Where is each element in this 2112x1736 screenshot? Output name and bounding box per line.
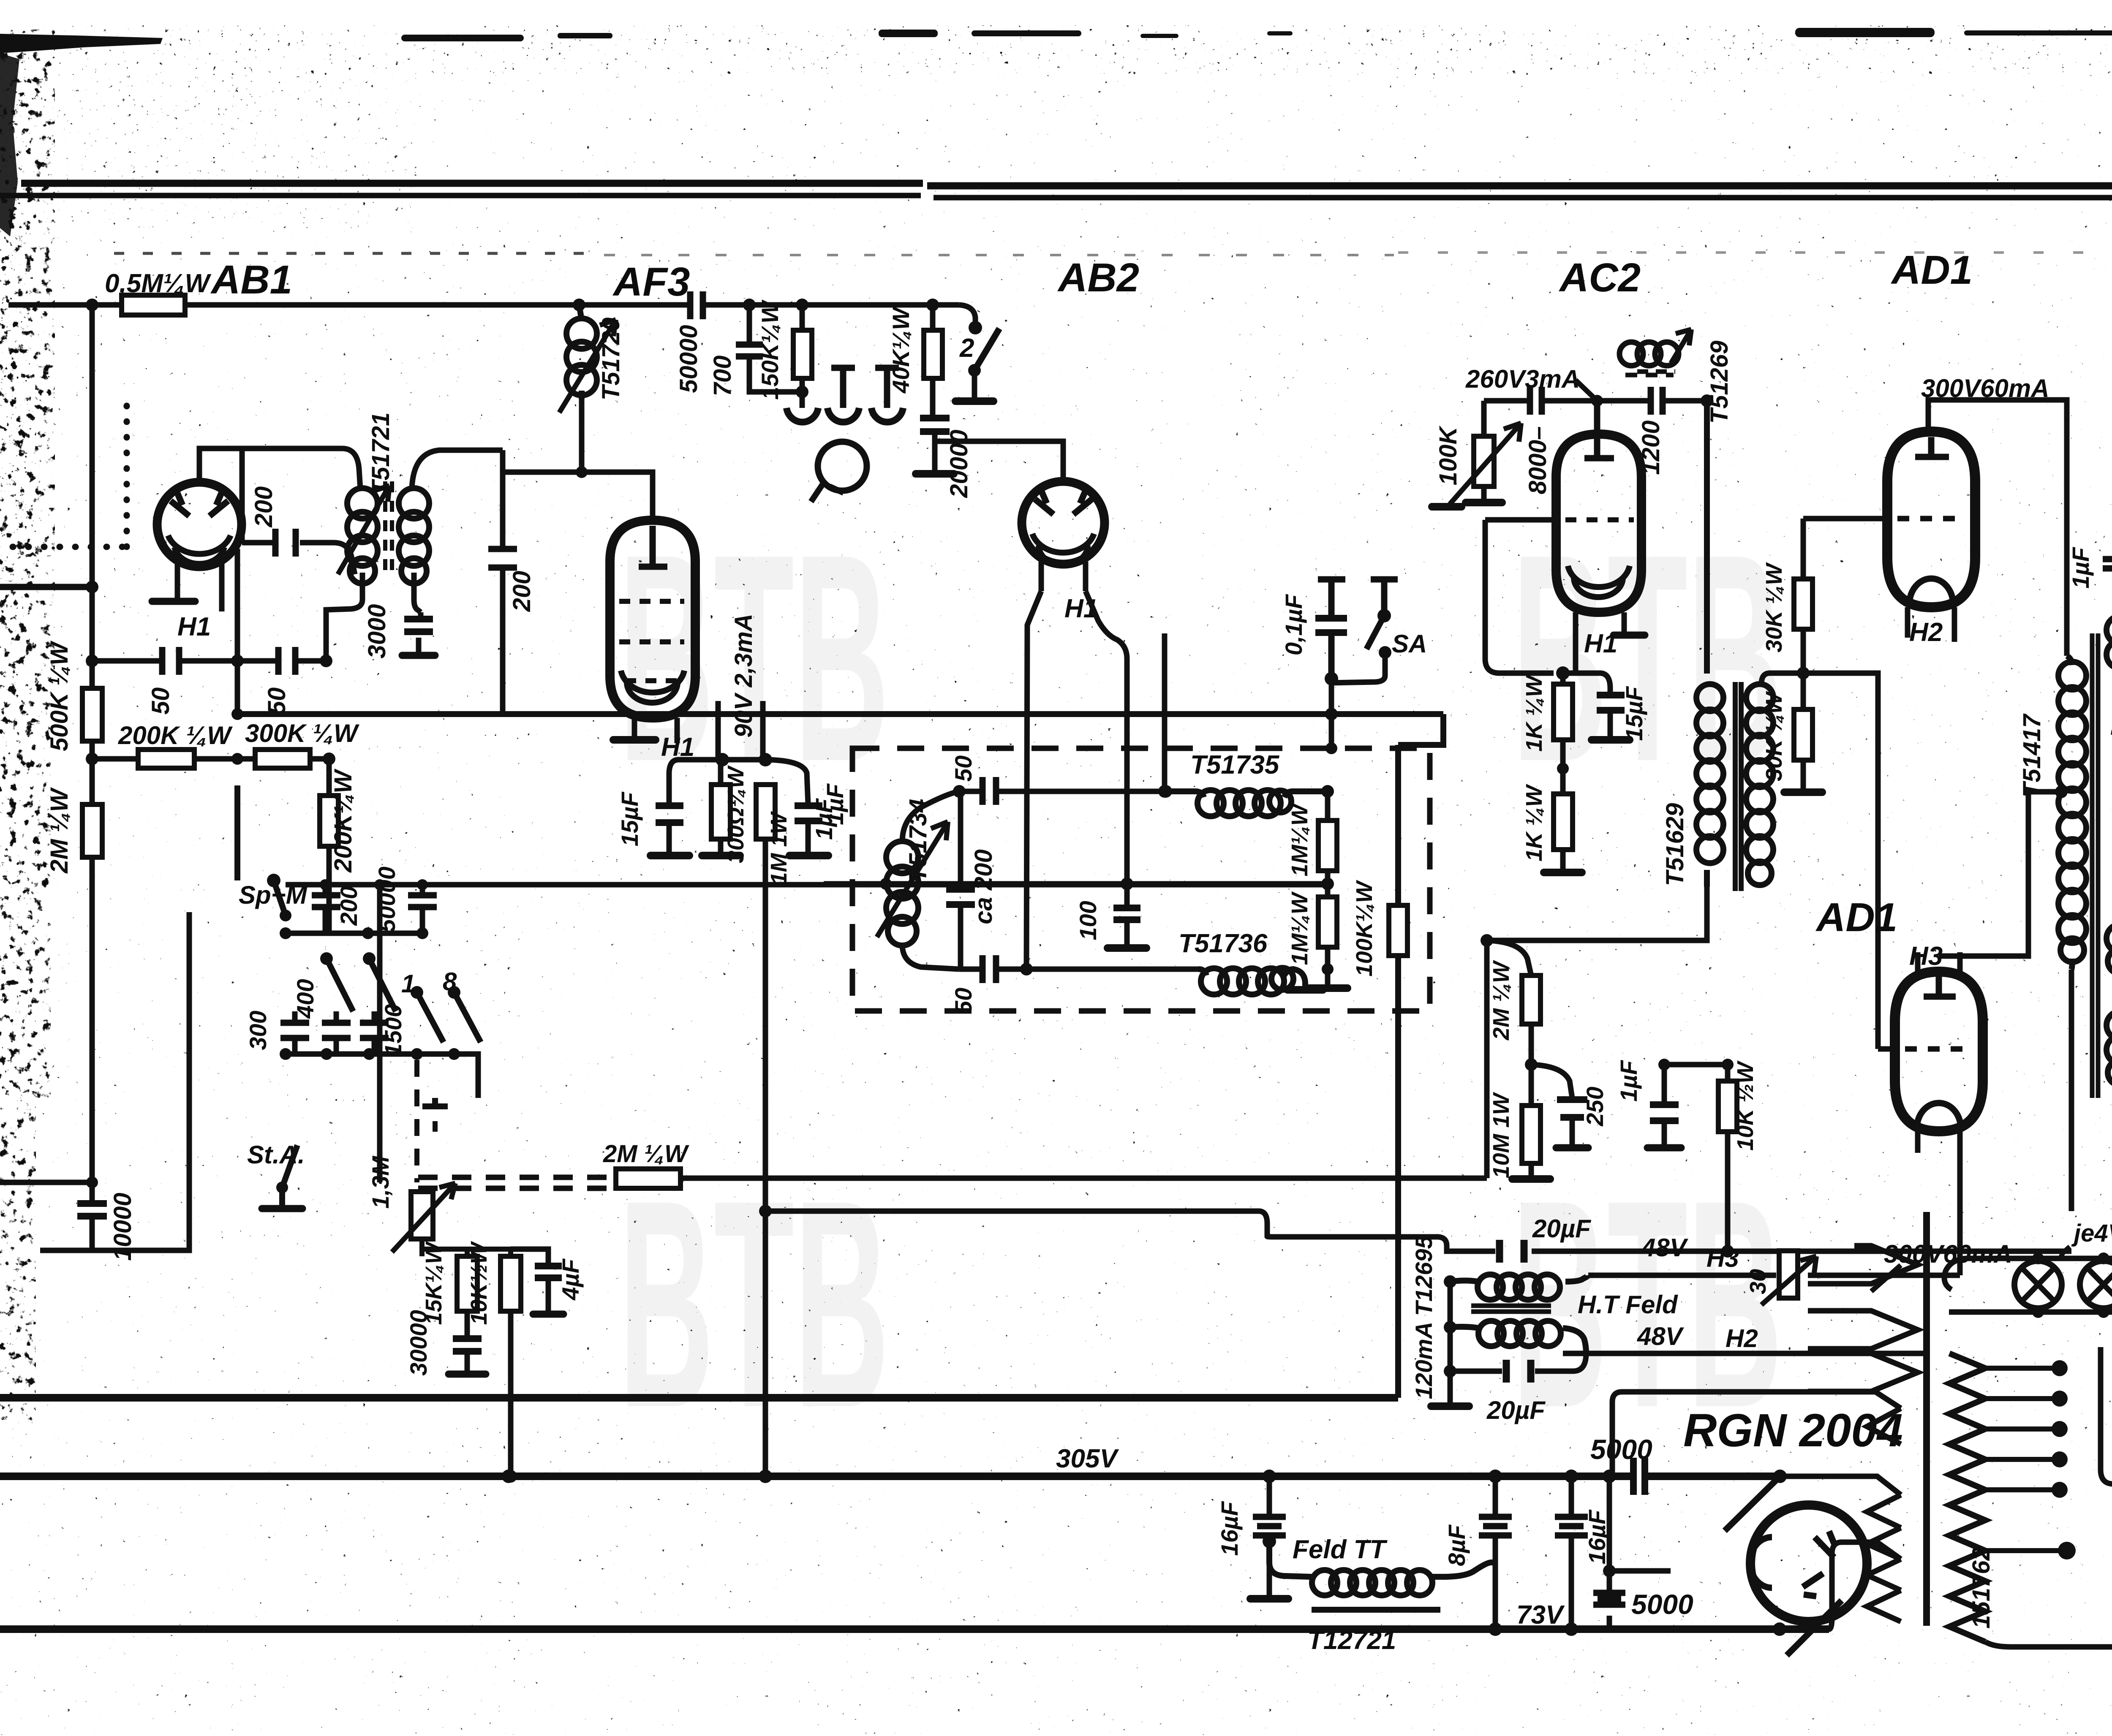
coupling cap 200 (AB1 anode) xyxy=(242,448,355,574)
bias node wire xyxy=(1664,1062,1728,1068)
RGN anode diagonal top xyxy=(1725,1476,1780,1531)
resistor 2M 1/4W (grid leak AD1) xyxy=(1487,940,1531,1065)
ground bar pot xyxy=(1466,499,1502,506)
svg-text:4µF: 4µF xyxy=(557,1258,584,1300)
rail L3 xyxy=(0,1625,1829,1633)
resistor 1M 1/4W lower xyxy=(1325,884,1331,969)
wire B (300V feed lower) xyxy=(765,1211,2071,1251)
svg-text:30K ¼W: 30K ¼W xyxy=(1761,691,1787,781)
antenna input wire xyxy=(0,584,92,590)
svg-text:AF3: AF3 xyxy=(612,259,690,304)
svg-text:1K ¼W: 1K ¼W xyxy=(1521,784,1547,861)
rail L1 xyxy=(0,1394,1398,1402)
Sp+M switch lever xyxy=(237,785,286,916)
svg-text:3000: 3000 xyxy=(363,604,391,658)
ground bar 300 xyxy=(702,852,740,859)
Feld TT choke xyxy=(1269,1541,1495,1577)
left vertical continues to 10000 cap xyxy=(90,840,95,1202)
extra noise top band xyxy=(63,25,2112,76)
bus of band switches xyxy=(286,931,422,936)
svg-text:H2: H2 xyxy=(1726,1324,1758,1353)
resistor 0,5M (series in antenna lead) xyxy=(122,295,185,315)
T51629 primary bottom to 2M node xyxy=(1487,887,1707,940)
tube AB1 cathode arcs xyxy=(168,535,231,554)
osc coil T51734 xyxy=(886,841,918,873)
primary taps xyxy=(1985,1368,2061,1551)
svg-text:5000: 5000 xyxy=(1631,1589,1693,1620)
resistor 200K 1/4W xyxy=(138,750,194,768)
T51720 bottom lead xyxy=(579,399,585,472)
svg-text:120mA T12695: 120mA T12695 xyxy=(1410,1236,1437,1399)
dashed oscillator box xyxy=(852,748,1430,1011)
resistor 10M 1W xyxy=(1529,1065,1534,1177)
AD1 H2 cathode dome xyxy=(1909,579,1953,605)
transformer core xyxy=(1923,1212,1930,1626)
ground bar 30K lower xyxy=(1784,788,1822,796)
pot 100K arrow xyxy=(1450,423,1521,504)
svg-text:16µF: 16µF xyxy=(1584,1509,1610,1565)
AD1 H3 pins xyxy=(1918,1131,1960,1275)
svg-text:T51417: T51417 xyxy=(2018,713,2046,797)
switch bank right vertical xyxy=(377,885,383,1182)
resistor 10K 1/2W xyxy=(1725,1065,1731,1251)
svg-text:151762: 151762 xyxy=(1968,1547,1995,1629)
svg-text:260V3mA: 260V3mA xyxy=(1465,365,1580,393)
svg-text:H3: H3 xyxy=(1706,1244,1739,1272)
svg-text:73V: 73V xyxy=(1516,1600,1565,1630)
svg-text:H1: H1 xyxy=(1584,629,1617,658)
resistor 100K 1/4W (AVC divider) xyxy=(1395,745,1401,1398)
grid wire to AF3 xyxy=(503,472,653,519)
T51721 secondary top lead xyxy=(412,450,503,489)
lamp bus upper xyxy=(1968,1256,2112,1261)
svg-text:ca 200: ca 200 xyxy=(970,849,997,924)
junction dot at 40K xyxy=(926,299,939,311)
RGN inner circle xyxy=(1750,1537,1772,1588)
ground bar field xyxy=(1431,1402,1469,1410)
switch 1 lever xyxy=(417,992,444,1042)
cap 16uF left xyxy=(1267,1476,1272,1541)
RGN cathode diagonal bottom xyxy=(1787,1600,1842,1655)
anode loop xyxy=(1612,1392,1901,1473)
switch 8 lever xyxy=(454,992,481,1042)
coil T51735 xyxy=(1166,791,1328,797)
svg-text:2M ¼W: 2M ¼W xyxy=(603,1140,689,1168)
resistor 1M 1/4W upper xyxy=(1325,791,1331,884)
pot wiper to network xyxy=(422,1239,467,1256)
ground bar under AB1 pin xyxy=(152,598,195,605)
svg-text:500K ¼W: 500K ¼W xyxy=(46,641,73,751)
svg-text:30: 30 xyxy=(1745,1269,1771,1294)
resistor 2M 1/4W (series AVC) xyxy=(616,1169,680,1188)
grid cap 200 (right) xyxy=(500,450,506,712)
svg-text:300Ω¼W: 300Ω¼W xyxy=(723,765,748,863)
svg-text:AD1: AD1 xyxy=(1815,895,1897,940)
cap 50 (right) xyxy=(278,647,295,675)
bottom wire to winding xyxy=(1773,1622,1786,1636)
coupling cap left xyxy=(1530,387,1542,415)
cap 1uF (AD1 bias) xyxy=(1662,1065,1667,1146)
ground bar 1K lower xyxy=(1544,869,1582,876)
svg-text:AD1: AD1 xyxy=(1891,247,1973,293)
top-left corner smudge xyxy=(0,34,163,53)
cap 250 (grid) xyxy=(1531,1065,1572,1146)
svg-text:T51735: T51735 xyxy=(1190,750,1280,780)
switch box bottom xyxy=(40,912,189,1250)
svg-text:200K¼W: 200K¼W xyxy=(329,769,357,873)
T51417 primary coil xyxy=(2067,656,2072,970)
svg-text:AB1: AB1 xyxy=(210,257,292,302)
H.T Feld coil lower xyxy=(1450,1327,1586,1353)
AVC cap wire row xyxy=(92,658,326,664)
svg-text:100K: 100K xyxy=(1434,425,1462,486)
svg-text:90V 2,3mA: 90V 2,3mA xyxy=(730,614,757,737)
cap 50 top xyxy=(983,777,996,805)
field coil H.T Feld choke vertical xyxy=(1448,1282,1453,1404)
series cap 50000 on rail xyxy=(690,291,703,319)
ground bar 3000 xyxy=(402,652,435,659)
svg-text:1K ¼W: 1K ¼W xyxy=(1521,674,1547,752)
wire pot to 10K xyxy=(435,1249,511,1256)
top smudge dashes xyxy=(401,35,524,41)
output transformer T51417 core xyxy=(2092,633,2098,1098)
cathode bar xyxy=(1614,632,1645,639)
dotted AVC line horizontal xyxy=(13,544,127,550)
wire to T51721 top xyxy=(242,448,360,489)
RGN grid left wire xyxy=(1609,1568,1671,1574)
dashed AVC double line xyxy=(418,1177,616,1188)
svg-text:40K¼W: 40K¼W xyxy=(887,306,914,394)
ground bar St.A xyxy=(262,1205,302,1212)
potentiometer 1,3M xyxy=(411,1192,433,1239)
svg-text:150K¼W: 150K¼W xyxy=(757,299,783,400)
tube AD1 H2 envelope xyxy=(1887,432,1975,607)
ground bar switch 2 xyxy=(955,397,993,405)
AC2 top cap xyxy=(1584,401,1614,458)
wire cap to winding xyxy=(1645,1476,1901,1495)
resistor 40K 1/4W xyxy=(930,305,936,416)
top box wire with cap 50 xyxy=(959,789,1166,794)
electrolytic 15uF (AC2) xyxy=(1563,673,1610,737)
cap 8uF xyxy=(1493,1476,1498,1629)
svg-text:305V: 305V xyxy=(1056,1444,1119,1473)
svg-text:H1: H1 xyxy=(177,612,211,641)
svg-text:50000: 50000 xyxy=(675,325,702,393)
svg-text:200K ¼W: 200K ¼W xyxy=(118,721,233,750)
heater winding chevron 2 xyxy=(1808,1311,1918,1349)
T51734 arrow xyxy=(877,822,948,937)
heater winding chevron H2 xyxy=(1808,1353,1926,1391)
resistor 10K 1/2W xyxy=(501,1256,521,1311)
coupling cap right xyxy=(1651,387,1663,415)
St.A switch lever xyxy=(282,1145,297,1207)
cap 15uF xyxy=(669,760,722,853)
left vertical to bottom xyxy=(1607,1476,1612,1629)
grid tick arrow xyxy=(1576,380,1597,401)
RGN2004 bulb xyxy=(1750,1505,1867,1622)
lamp 2 xyxy=(2080,1261,2112,1308)
extra noise cloud mid-left xyxy=(46,228,207,650)
svg-text:250: 250 xyxy=(1581,1087,1608,1126)
svg-text:AC2: AC2 xyxy=(1559,255,1641,300)
cap 10000 xyxy=(77,1204,107,1216)
svg-text:16µF: 16µF xyxy=(1216,1501,1243,1556)
grid wire AD1 H2 xyxy=(1803,516,1887,522)
resistor 300 1/4W xyxy=(718,760,724,853)
osc coil 100 top xyxy=(1619,342,1643,366)
svg-text:T51736: T51736 xyxy=(1178,929,1268,958)
svg-text:50: 50 xyxy=(950,755,977,782)
T51721 secondary bottom leads xyxy=(326,573,362,661)
extra noise cloud top-left xyxy=(38,51,418,228)
svg-text:200: 200 xyxy=(335,886,362,926)
cap 50 bottom xyxy=(983,955,996,983)
cap 50000 (switch) xyxy=(420,885,425,933)
AB2 anode lead xyxy=(935,441,1063,481)
resistor 150K 1/4W xyxy=(800,305,805,392)
ground bar 15uF xyxy=(650,852,689,859)
svg-text:H2: H2 xyxy=(1909,618,1943,647)
shunt cap 5000 xyxy=(1593,1593,1625,1605)
svg-text:1µF: 1µF xyxy=(811,798,837,839)
cap 4uF xyxy=(511,1249,548,1264)
AC2 grid left feed xyxy=(1485,520,1554,673)
ground bar 4uF xyxy=(533,1311,563,1318)
AD1 H3 top leads xyxy=(1918,952,1960,972)
ground bar 1M lower xyxy=(1309,984,1347,992)
svg-text:AB2: AB2 xyxy=(1057,255,1139,300)
resistor 30K 1/4W (lower) xyxy=(1801,673,1806,790)
svg-text:je4V0,3A: je4V0,3A xyxy=(2071,1220,2112,1247)
AC2 grid dashes xyxy=(1485,517,1556,523)
cap 1500 xyxy=(372,1011,377,1054)
svg-text:0,1µF: 0,1µF xyxy=(1280,594,1307,655)
resistor 15K 1/4W xyxy=(457,1256,477,1311)
AD1 H3 cathode dome xyxy=(1917,1103,1961,1128)
svg-text:30K ¼W: 30K ¼W xyxy=(1761,562,1787,652)
fuse feed vertical xyxy=(2101,1347,2112,1485)
svg-text:2M ¼W: 2M ¼W xyxy=(46,787,73,874)
resistor 2M 1/4W left column xyxy=(82,804,102,857)
Feld TT core bar xyxy=(1312,1607,1440,1613)
svg-text:10K ½W: 10K ½W xyxy=(1733,1060,1758,1151)
junction dot at 150K xyxy=(796,299,808,311)
dashed link vertical xyxy=(414,1060,419,1182)
svg-text:8: 8 xyxy=(443,967,457,996)
svg-text:300K ¼W: 300K ¼W xyxy=(245,719,359,747)
AF3 grid dashes xyxy=(619,599,684,604)
svg-text:8000–: 8000– xyxy=(1524,426,1551,494)
svg-text:300: 300 xyxy=(245,1011,271,1050)
IF transformer T51721 primary coil xyxy=(347,488,378,519)
ground bar T51736 xyxy=(1287,986,1323,994)
AD1 H2 anode feed xyxy=(1928,400,2067,656)
svg-text:50: 50 xyxy=(147,687,174,715)
tuning eye tail xyxy=(811,483,844,502)
AB2 grid vertical to osc xyxy=(1026,591,1041,969)
tube AB1 envelope xyxy=(157,482,242,567)
left vertical bus from antenna node xyxy=(90,305,95,1202)
svg-text:SA: SA xyxy=(1392,630,1427,658)
svg-text:1M 1W: 1M 1W xyxy=(766,811,792,885)
svg-text:700: 700 xyxy=(709,356,736,397)
fold dashed line across sheet xyxy=(114,253,2112,255)
svg-text:T12721: T12721 xyxy=(1307,1626,1396,1655)
svg-text:Feld TT: Feld TT xyxy=(1293,1535,1388,1564)
svg-text:1µF: 1µF xyxy=(1615,1060,1642,1101)
left input wire lower xyxy=(0,1180,92,1185)
AD1 H3 grid dashes xyxy=(1905,1046,1973,1052)
cap 0,1uF xyxy=(1318,579,1345,679)
AD1 H2 anode bar xyxy=(1915,437,1949,457)
primary bottom to 300V rail xyxy=(2069,970,2074,1211)
tube AB1 anode electrodes xyxy=(171,493,189,516)
tube AB2 anode electrodes xyxy=(1035,492,1053,514)
svg-text:1,3M: 1,3M xyxy=(367,1155,394,1209)
svg-text:H.T Feld: H.T Feld xyxy=(1578,1290,1678,1319)
H.T Feld coil upper xyxy=(1450,1275,1588,1282)
tube AC2 envelope xyxy=(1556,434,1641,612)
ground bar 20000 xyxy=(916,470,954,478)
svg-text:48V: 48V xyxy=(1637,1322,1685,1350)
osc entry wire xyxy=(824,881,1127,887)
cap 700 xyxy=(749,305,802,392)
T51721 dashed core xyxy=(385,481,392,579)
electrolytic 3000 xyxy=(419,612,421,654)
ground stem 16uF xyxy=(1267,1541,1272,1596)
heater winding chevrons top xyxy=(1808,1246,1918,1284)
ground bar 30000 xyxy=(449,1371,486,1378)
IF transformer T51629 secondary xyxy=(1746,684,1773,711)
svg-text:H3: H3 xyxy=(1909,942,1943,971)
svg-text:100: 100 xyxy=(1075,901,1101,940)
bottom box wire with cap 50 xyxy=(959,967,1199,972)
wire A (AVC line) xyxy=(680,940,1487,1178)
ground bar arrow end xyxy=(1432,503,1462,511)
resistor 200K 1/4W vertical xyxy=(327,759,332,933)
svg-text:1M¼W: 1M¼W xyxy=(1287,802,1312,876)
T51629 core xyxy=(1733,682,1738,891)
AF3 pins xyxy=(634,701,763,760)
cap ca200 xyxy=(958,791,963,969)
cap 300 xyxy=(292,1011,298,1054)
cap 400 xyxy=(334,1011,339,1054)
svg-text:48V: 48V xyxy=(1641,1233,1689,1262)
resistor 1M 1W (305V feed) xyxy=(756,785,775,839)
svg-text:20µF: 20µF xyxy=(1486,1396,1546,1424)
band switch lever 2 xyxy=(369,959,396,1011)
junction dot A xyxy=(86,299,98,311)
AB2 cathode vertical xyxy=(1086,591,1127,884)
coil T51736 xyxy=(1199,969,1305,988)
padder cap on dashed line xyxy=(422,1098,448,1106)
svg-text:1M¼W: 1M¼W xyxy=(1287,891,1312,965)
svg-text:50: 50 xyxy=(950,988,977,1014)
heater line H3 xyxy=(1588,1273,1960,1278)
svg-text:400: 400 xyxy=(292,979,318,1019)
AF3 cathode arcs xyxy=(621,671,684,693)
mid wire xyxy=(1127,881,1328,887)
svg-text:10M 1W: 10M 1W xyxy=(1489,1092,1514,1178)
svg-text:T51721: T51721 xyxy=(367,413,395,496)
rail L2 305V xyxy=(0,1472,1780,1480)
lower bus xyxy=(286,1054,478,1098)
top main wire xyxy=(8,302,959,308)
svg-text:50: 50 xyxy=(263,687,291,715)
tuning eye circle xyxy=(818,442,867,491)
lamp bus lower xyxy=(1949,1309,2112,1315)
ground bar AF3 pin xyxy=(613,736,656,744)
ground bar 100 xyxy=(1108,944,1146,952)
10K to 305V rail xyxy=(508,1311,514,1476)
primary bottom wire xyxy=(1985,1642,2112,1647)
20uF cap top (48V line) xyxy=(1500,1240,1524,1263)
IF transformer T51721 secondary coil xyxy=(399,488,429,519)
svg-text:8µF: 8µF xyxy=(1443,1524,1470,1566)
bus corner into box xyxy=(1398,714,1443,745)
junction 16uF-a xyxy=(1263,1470,1276,1483)
resistor 500K vertical xyxy=(82,688,102,741)
dotted AVC line vertical xyxy=(124,399,130,547)
AC2 pins xyxy=(1576,612,1624,673)
svg-text:1500: 1500 xyxy=(380,1004,406,1057)
third vertical to 50 bus xyxy=(1162,633,1168,791)
cap 16uF right xyxy=(1569,1476,1574,1629)
primary zigzag winding xyxy=(1949,1353,1985,1642)
top rail double line (left segment) xyxy=(0,183,2112,198)
resistor 30K 1/4W (screen) xyxy=(1801,519,1806,673)
svg-text:200: 200 xyxy=(508,571,536,612)
long bus wire (grid return) xyxy=(237,711,1443,717)
T51734 leads xyxy=(902,791,959,842)
svg-text:T51629: T51629 xyxy=(1661,803,1689,886)
cap 50 (left) xyxy=(162,647,179,675)
AD1 H3 anode bar xyxy=(1924,975,1956,997)
RGN inner filament bars xyxy=(1803,1531,1835,1596)
ground bar 10M xyxy=(1512,1175,1550,1183)
svg-text:15µF: 15µF xyxy=(1621,686,1647,741)
AF3 anode bar xyxy=(639,526,667,567)
IF transformer T51629 primary xyxy=(1704,401,1710,887)
top rail double line (right segment) xyxy=(927,182,2112,190)
series cap 5000 xyxy=(1633,1458,1645,1495)
T51720 tuning arrow xyxy=(559,320,616,413)
bias node wire xyxy=(722,757,765,763)
tube AF3 envelope xyxy=(610,520,695,718)
HV winding chevron top xyxy=(1867,1408,1901,1444)
T51721 tuning arrow xyxy=(338,486,389,574)
cap 1uF (bias) xyxy=(765,760,808,853)
H.T Feld core bars xyxy=(1471,1306,1551,1312)
ground bar 1uF xyxy=(789,852,828,859)
cap 30000 under 15K xyxy=(465,1311,470,1337)
chassis arc under 150K xyxy=(800,392,805,408)
resistor 1K 1/4W xyxy=(1560,673,1566,769)
svg-text:200: 200 xyxy=(250,486,278,528)
tube AB1 pins xyxy=(177,549,237,712)
pot 100K xyxy=(1481,401,1487,500)
svg-text:15µF: 15µF xyxy=(616,791,643,847)
switch SA xyxy=(1371,579,1398,614)
cap 20uF (field) xyxy=(1450,1353,1586,1371)
heater line H2 xyxy=(1563,1351,1926,1356)
resistor 1K 1/4W lower xyxy=(1560,769,1566,870)
electrolytic 20000 xyxy=(920,418,950,432)
band switch lever 1 xyxy=(327,959,353,1011)
AVC resistor row wire xyxy=(92,741,329,759)
AD1 H2 pins xyxy=(1908,607,1954,642)
svg-text:10K½W: 10K½W xyxy=(466,1241,492,1325)
